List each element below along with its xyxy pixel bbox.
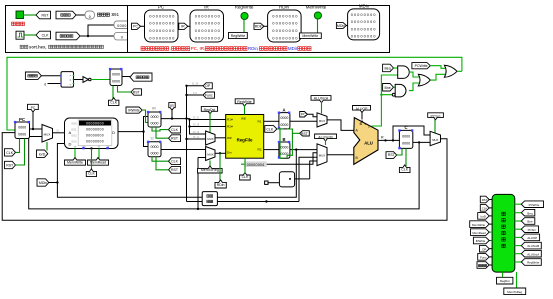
register C: [398, 125, 413, 149]
panel border left: [6, 6, 128, 53]
tunnel MDin (panel): [336, 22, 346, 28]
tunnel 总周期数 main: [130, 73, 152, 81]
svg-text:R1#: R1#: [227, 118, 233, 122]
tunnel 总周期数: [56, 32, 80, 40]
svg-text:00000000: 00000000: [86, 134, 104, 138]
tunnel IRWrite ctl: [473, 237, 489, 244]
svg-text:0000: 0000: [112, 80, 120, 84]
svg-text:RST: RST: [133, 90, 141, 94]
svg-text:CLK: CLK: [266, 128, 273, 132]
svg-text:MemWrite: MemWrite: [472, 223, 486, 227]
svg-text:W#: W#: [227, 136, 232, 140]
svg-text:IR: IR: [152, 107, 156, 111]
register IR: [147, 107, 162, 128]
bus vertical 186.5: [186, 86, 188, 202]
svg-text:ALUSrcB: ALUSrcB: [527, 244, 539, 248]
wires dr clk/rst: [152, 157, 169, 170]
tunnel RST pc: [5, 161, 16, 168]
svg-text:000: 000: [71, 122, 76, 126]
tunnel RegDst ctl: [502, 272, 504, 277]
CTRL: [470, 194, 544, 294]
svg-text:00000000: 00000000: [149, 36, 175, 41]
wire R1#: [190, 119, 226, 121]
svg-text:ALUSrcA: ALUSrcA: [527, 252, 539, 256]
tunnel PCWrite ctl: [521, 201, 543, 208]
svg-text:003: 003: [71, 140, 76, 144]
tunnel ALUSrcB: [315, 134, 337, 141]
svg-text:PC: PC: [301, 113, 306, 117]
svg-text:A: A: [282, 108, 285, 113]
tunnel ALUOP: [353, 106, 371, 113]
tunnel MemWrite ctl: [470, 221, 490, 228]
display RDin: [268, 5, 302, 42]
svg-text:MDin: MDin: [288, 46, 299, 51]
svg-text:MDin: MDin: [359, 4, 370, 9]
svg-text:<: <: [70, 83, 72, 87]
or gate mid: [409, 72, 419, 91]
svg-text:IRWrite: IRWrite: [476, 239, 486, 243]
svg-text:Bne: Bne: [384, 86, 390, 90]
svg-text:00000000: 00000000: [195, 21, 221, 26]
svg-text:IorD: IorD: [39, 152, 46, 156]
svg-text:Func: Func: [205, 93, 213, 97]
caption text: [20, 45, 23, 48]
svg-text:PC, IR,: PC, IR,: [191, 46, 206, 51]
svg-text:0000: 0000: [117, 24, 127, 28]
svg-text:OP: OP: [205, 84, 211, 88]
tunnel IR pentagon: [169, 103, 175, 111]
wire imm to muxB in2: [299, 157, 317, 201]
register A: [278, 108, 291, 130]
shifter input pin: [265, 181, 268, 184]
wire bottom bus y209: [29, 137, 419, 209]
probe 0b: [114, 32, 130, 40]
svg-text:R2#: R2#: [227, 125, 233, 129]
svg-text:002: 002: [71, 134, 76, 138]
svg-text:00000000: 00000000: [272, 28, 298, 33]
zero wire green: [371, 75, 397, 126]
svg-text:CLK: CLK: [401, 168, 408, 172]
svg-text:00000000: 00000000: [351, 26, 377, 31]
sign extend box: [202, 192, 217, 206]
svg-text:0: 0: [121, 36, 123, 40]
svg-text:MemWrite: MemWrite: [302, 34, 318, 38]
tunnel CLK ir: [169, 126, 181, 133]
svg-text:IRWrite: IRWrite: [128, 108, 140, 112]
svg-text:IorD: IorD: [480, 215, 485, 219]
svg-text:0000: 0000: [151, 145, 159, 149]
tunnel RDin (panel): [254, 23, 264, 29]
tunnel 真地址 main: [25, 72, 41, 79]
clock: [16, 31, 24, 39]
svg-text:PCWrite: PCWrite: [415, 64, 428, 68]
svg-text:,: ,: [170, 46, 171, 51]
svg-text:MUX: MUX: [44, 133, 51, 137]
tunnel PC above: [28, 104, 39, 112]
tunnel RegWrite ctl: [521, 259, 541, 266]
tunnel PC right: [300, 112, 308, 118]
tunnel Func ctl: [478, 254, 490, 261]
comparator: [61, 72, 74, 88]
svg-text:PCSrc: PCSrc: [528, 228, 537, 232]
register B: [278, 137, 291, 159]
svg-text:RST: RST: [171, 136, 179, 140]
or gate big: [444, 65, 457, 77]
svg-text:20..16: 20..16: [193, 132, 200, 134]
panel border right: [128, 6, 390, 53]
svg-text:0000: 0000: [151, 122, 159, 126]
wire DR to mux: [161, 149, 206, 151]
svg-text:RegDst: RegDst: [204, 108, 216, 112]
svg-text:IR: IR: [170, 104, 174, 108]
svg-text:MemWrite: MemWrite: [306, 5, 327, 10]
tunnel Beq ctl: [521, 209, 535, 216]
svg-text:=: =: [368, 125, 370, 129]
svg-text:MUX: MUX: [432, 138, 438, 142]
svg-text:00000000: 00000000: [272, 13, 298, 18]
svg-text:B: B: [282, 137, 285, 142]
wire button to RST: [24, 14, 37, 16]
tunnel RST c: [386, 152, 397, 159]
svg-text:R: R: [381, 136, 384, 140]
counter register: [110, 69, 122, 86]
svg-text:ALUOP: ALUOP: [527, 236, 537, 240]
tunnel CLK ctl: [480, 205, 489, 212]
svg-text:MDin: MDin: [39, 181, 47, 185]
svg-text:00000000: 00000000: [272, 36, 298, 41]
tunnel RST cnt: [118, 86, 132, 93]
svg-text:CLK: CLK: [6, 151, 13, 155]
and gate 2 with inverted input: [392, 93, 395, 96]
tunnel PCSrc main: [428, 113, 444, 120]
wire mem data y197: [57, 144, 296, 198]
tunnel Bne ctl: [521, 218, 535, 225]
wires ir clk/rst: [152, 127, 169, 138]
svg-text:MemRead: MemRead: [472, 231, 486, 235]
svg-text:PCWrite: PCWrite: [529, 203, 540, 207]
svg-text:PC: PC: [19, 117, 26, 122]
tunnel PC (panel): [132, 23, 141, 29]
svg-text:PC: PC: [31, 106, 36, 110]
svg-text:>: >: [70, 74, 72, 78]
tunnel Beq: [383, 64, 394, 72]
svg-text:00000000: 00000000: [86, 122, 104, 126]
tunnel IorD ctl: [478, 213, 490, 220]
svg-text:CLK: CLK: [110, 101, 117, 105]
svg-text:MDin: MDin: [337, 24, 345, 28]
svg-text:R2: R2: [258, 148, 262, 152]
display IR: [190, 5, 224, 42]
tunnel CLK: [36, 31, 51, 39]
svg-text:RegDst: RegDst: [500, 279, 510, 283]
wire PCWrite green loop: [7, 57, 462, 130]
svg-text:WE: WE: [241, 117, 246, 121]
svg-text:RST: RST: [301, 132, 309, 136]
ALU: [354, 118, 384, 165]
svg-text:00000000: 00000000: [149, 28, 175, 33]
svg-text:R1: R1: [258, 120, 262, 124]
svg-text:ALUOP: ALUOP: [356, 107, 369, 111]
svg-text:RegWrite: RegWrite: [527, 261, 539, 265]
svg-text:ALUSrcA: ALUSrcA: [314, 97, 329, 101]
wire counter out: [122, 76, 130, 78]
RAM: [65, 118, 119, 149]
svg-text:Func: Func: [480, 256, 487, 260]
wire imm shifted to muxB in3: [310, 161, 317, 179]
mux RegDst: [206, 131, 215, 145]
tunnel PCWrite main: [412, 63, 430, 69]
svg-text::891: :891: [111, 12, 120, 17]
caption red: [141, 47, 145, 51]
svg-text:00000000: 00000000: [195, 28, 221, 33]
tunnel RST ab: [300, 131, 310, 136]
svg-text:0000: 0000: [280, 116, 288, 120]
svg-text:MemRead: MemRead: [90, 160, 106, 164]
wire Func branch: [187, 94, 204, 96]
svg-text:20..16: 20..16: [193, 124, 200, 126]
svg-text:00000000: 00000000: [195, 36, 221, 41]
svg-text:PC: PC: [158, 5, 165, 10]
svg-text:RST: RST: [482, 198, 488, 202]
tunnel ALUSrcA: [311, 96, 331, 103]
wire memtoreg in1 from bus: [198, 158, 206, 209]
mux PCSrc: [430, 131, 440, 145]
svg-text:RST: RST: [171, 168, 179, 172]
tunnel MemToReg ctl: [516, 272, 518, 288]
svg-text:MUX: MUX: [319, 119, 325, 123]
svg-text:31..26: 31..26: [192, 84, 199, 86]
tunnel RDin main: [219, 153, 221, 181]
probe 0: [85, 11, 95, 19]
tunnel MemRead: [98, 149, 100, 161]
display MDin: [348, 4, 380, 40]
svg-text:25..21: 25..21: [193, 117, 200, 119]
wire B to muxB / down: [290, 149, 317, 151]
tunnel 真地址 ctl: [477, 262, 489, 269]
svg-text:15..11: 15..11: [193, 137, 200, 139]
tunnel ALUSrcA ctl: [521, 250, 541, 257]
svg-text:00000000: 00000000: [149, 13, 175, 18]
left stubs: [489, 200, 492, 266]
tunnel CLK ab: [265, 126, 277, 133]
tunnel IorD: [37, 150, 48, 157]
not gate: [74, 79, 84, 81]
svg-text:Din: Din: [227, 150, 232, 154]
svg-text:CLK: CLK: [171, 159, 178, 163]
tunnel CLK dr: [169, 158, 181, 165]
tunnel Bne: [383, 84, 394, 92]
tunnel 真地址: [56, 11, 76, 19]
tunnel PCSrc ctl: [521, 226, 538, 233]
mux IorD: [42, 125, 53, 143]
wire ALU R out: [378, 139, 399, 141]
svg-text:0000: 0000: [402, 134, 410, 138]
svg-text:0000: 0000: [18, 126, 26, 130]
tunnel CLK c: [399, 165, 410, 173]
wire clock to CLK: [24, 34, 36, 36]
sign extend line: [187, 201, 300, 203]
svg-text:00000000: 00000000: [149, 21, 175, 26]
tunnel MemWrite (panel): [299, 33, 321, 39]
mux B: [317, 144, 327, 166]
wire or out: [457, 70, 462, 72]
wire 总周期数 to probes: [80, 25, 114, 36]
svg-text:D: D: [112, 130, 115, 135]
svg-text:CLK: CLK: [42, 33, 49, 37]
svg-text:IR: IR: [204, 5, 209, 10]
svg-text:CLK: CLK: [171, 128, 178, 132]
wire bottom bus y220: [2, 133, 447, 221]
svg-text:PCSrc: PCSrc: [430, 114, 440, 118]
tunnel ALUOP ctl: [521, 234, 539, 241]
svg-text:CLK: CLK: [242, 175, 249, 179]
wire alu r up to pcsrc mux: [393, 126, 430, 140]
wire mux regdst in1: [187, 138, 206, 140]
bus vertical 189.5: [189, 119, 191, 134]
svg-text:MUX: MUX: [207, 137, 213, 141]
svg-text:0000: 0000: [18, 133, 26, 137]
svg-text:00000000: 00000000: [86, 140, 104, 144]
svg-text:Beq: Beq: [384, 67, 390, 71]
svg-text:,: ,: [257, 46, 258, 51]
tunnel CLK regfile: [240, 173, 251, 181]
svg-text:CLK: CLK: [88, 172, 95, 176]
wire Op branch: [187, 85, 204, 87]
svg-text:RegWrite: RegWrite: [231, 34, 246, 38]
svg-text:str: str: [74, 145, 77, 148]
svg-text:RegFile: RegFile: [237, 138, 253, 143]
svg-text:MUX: MUX: [207, 153, 213, 157]
svg-text:CLK: CLK: [482, 207, 488, 211]
probe 0000: [114, 21, 130, 29]
wire A to muxA: [290, 120, 317, 122]
tunnel RegWrite main: [235, 99, 254, 106]
display PC: [145, 5, 179, 42]
svg-text:PC: PC: [133, 25, 138, 29]
PANEL-RIGHT: [128, 4, 390, 53]
svg-text:0000: 0000: [151, 115, 159, 119]
mux MemToReg: [206, 147, 215, 161]
tunnel MemRead ctl: [471, 229, 490, 236]
svg-text:00000000: 00000000: [272, 21, 298, 26]
wire R2#: [190, 126, 226, 128]
shifter box: [279, 172, 294, 187]
svg-text:MUX: MUX: [319, 154, 325, 158]
tunnel RegWrite (panel): [229, 32, 248, 38]
svg-text:32: 32: [150, 137, 154, 141]
svg-text:0000: 0000: [112, 73, 120, 77]
register DR: [147, 137, 162, 157]
reset button: [16, 11, 24, 19]
wire R1 to A: [264, 120, 279, 122]
register PC: [14, 117, 30, 139]
tunnel MemToReg: [209, 161, 211, 168]
tunnel IRWrite: [126, 107, 142, 113]
and gate 1: [398, 66, 410, 79]
svg-text:00000000: 00000000: [86, 128, 104, 132]
svg-text:Beq: Beq: [527, 211, 533, 215]
svg-text:MemWrite: MemWrite: [67, 160, 83, 164]
svg-text:00000000: 00000000: [351, 12, 377, 17]
tunnel ALUSrcB ctl: [521, 242, 541, 249]
svg-text:RST: RST: [388, 153, 396, 157]
svg-text:00000000: 00000000: [195, 13, 221, 18]
svg-text:d: d: [44, 81, 46, 86]
tunnel CLK pc: [5, 149, 16, 156]
PANEL-LEFT: [6, 6, 131, 53]
svg-text:RDin: RDin: [255, 25, 263, 29]
svg-text:OP: OP: [482, 247, 486, 251]
tunnel MDin: [37, 179, 49, 186]
tunnel RST dr: [169, 166, 181, 173]
tunnel RST: [36, 11, 51, 19]
svg-text:MemToReg: MemToReg: [507, 290, 522, 294]
svg-text:=: =: [70, 78, 72, 82]
wire mux regdst in0: [190, 127, 206, 135]
wire shifter out: [295, 178, 310, 180]
constant 00000004: [244, 161, 266, 167]
svg-text:RegWrite: RegWrite: [237, 100, 252, 104]
controller block: [492, 194, 515, 272]
tunnel IR (panel): [179, 23, 188, 29]
svg-text:RST: RST: [42, 13, 50, 17]
tunnel RST ir: [169, 135, 181, 142]
svg-text:00000000: 00000000: [351, 19, 377, 24]
label 参考值: [97, 13, 100, 16]
wire to probe: [76, 14, 85, 16]
label 总复位: [12, 22, 16, 26]
tunnel Op: [203, 83, 212, 89]
tunnel CLK cnt: [112, 86, 114, 100]
svg-text:Bne: Bne: [527, 220, 533, 224]
tunnel RegDst: [201, 106, 217, 113]
tunnel MemWrite: [74, 149, 76, 161]
svg-text:00000000: 00000000: [351, 34, 377, 39]
svg-text:RegWrite: RegWrite: [235, 5, 254, 10]
RegFile: [226, 115, 264, 159]
wire IR out bus: [161, 118, 190, 120]
wire MDin tap: [49, 182, 58, 184]
wire R2 to B: [264, 149, 279, 151]
tunnel Func: [203, 92, 214, 98]
svg-text:0000: 0000: [151, 151, 159, 155]
svg-text:sort.hex,: sort.hex,: [29, 44, 46, 49]
svg-text:0000: 0000: [280, 123, 288, 127]
svg-text:ALUSrcB: ALUSrcB: [318, 135, 333, 139]
svg-text:0: 0: [89, 15, 91, 19]
right stubs: [515, 204, 522, 262]
mux A: [317, 113, 327, 127]
svg-text:MemToReg: MemToReg: [201, 168, 219, 172]
svg-text:IR: IR: [181, 25, 185, 29]
svg-text:00000004: 00000004: [247, 163, 265, 167]
tunnel OP ctl: [480, 245, 490, 252]
svg-text:0000: 0000: [280, 145, 288, 149]
comparator circuit: [25, 68, 152, 106]
svg-text:RDin: RDin: [217, 183, 225, 187]
svg-text:RDin: RDin: [279, 5, 289, 10]
tunnel RST ctl: [480, 196, 489, 203]
wire C out: [413, 141, 430, 143]
tunnel CLK ram: [91, 149, 93, 172]
wire RAM D out: [118, 117, 148, 147]
svg-text:C: C: [404, 125, 407, 130]
svg-text:001: 001: [71, 128, 76, 132]
svg-text:ALU: ALU: [364, 141, 373, 146]
svg-text:0000: 0000: [402, 142, 410, 146]
svg-text:RST: RST: [6, 164, 14, 168]
